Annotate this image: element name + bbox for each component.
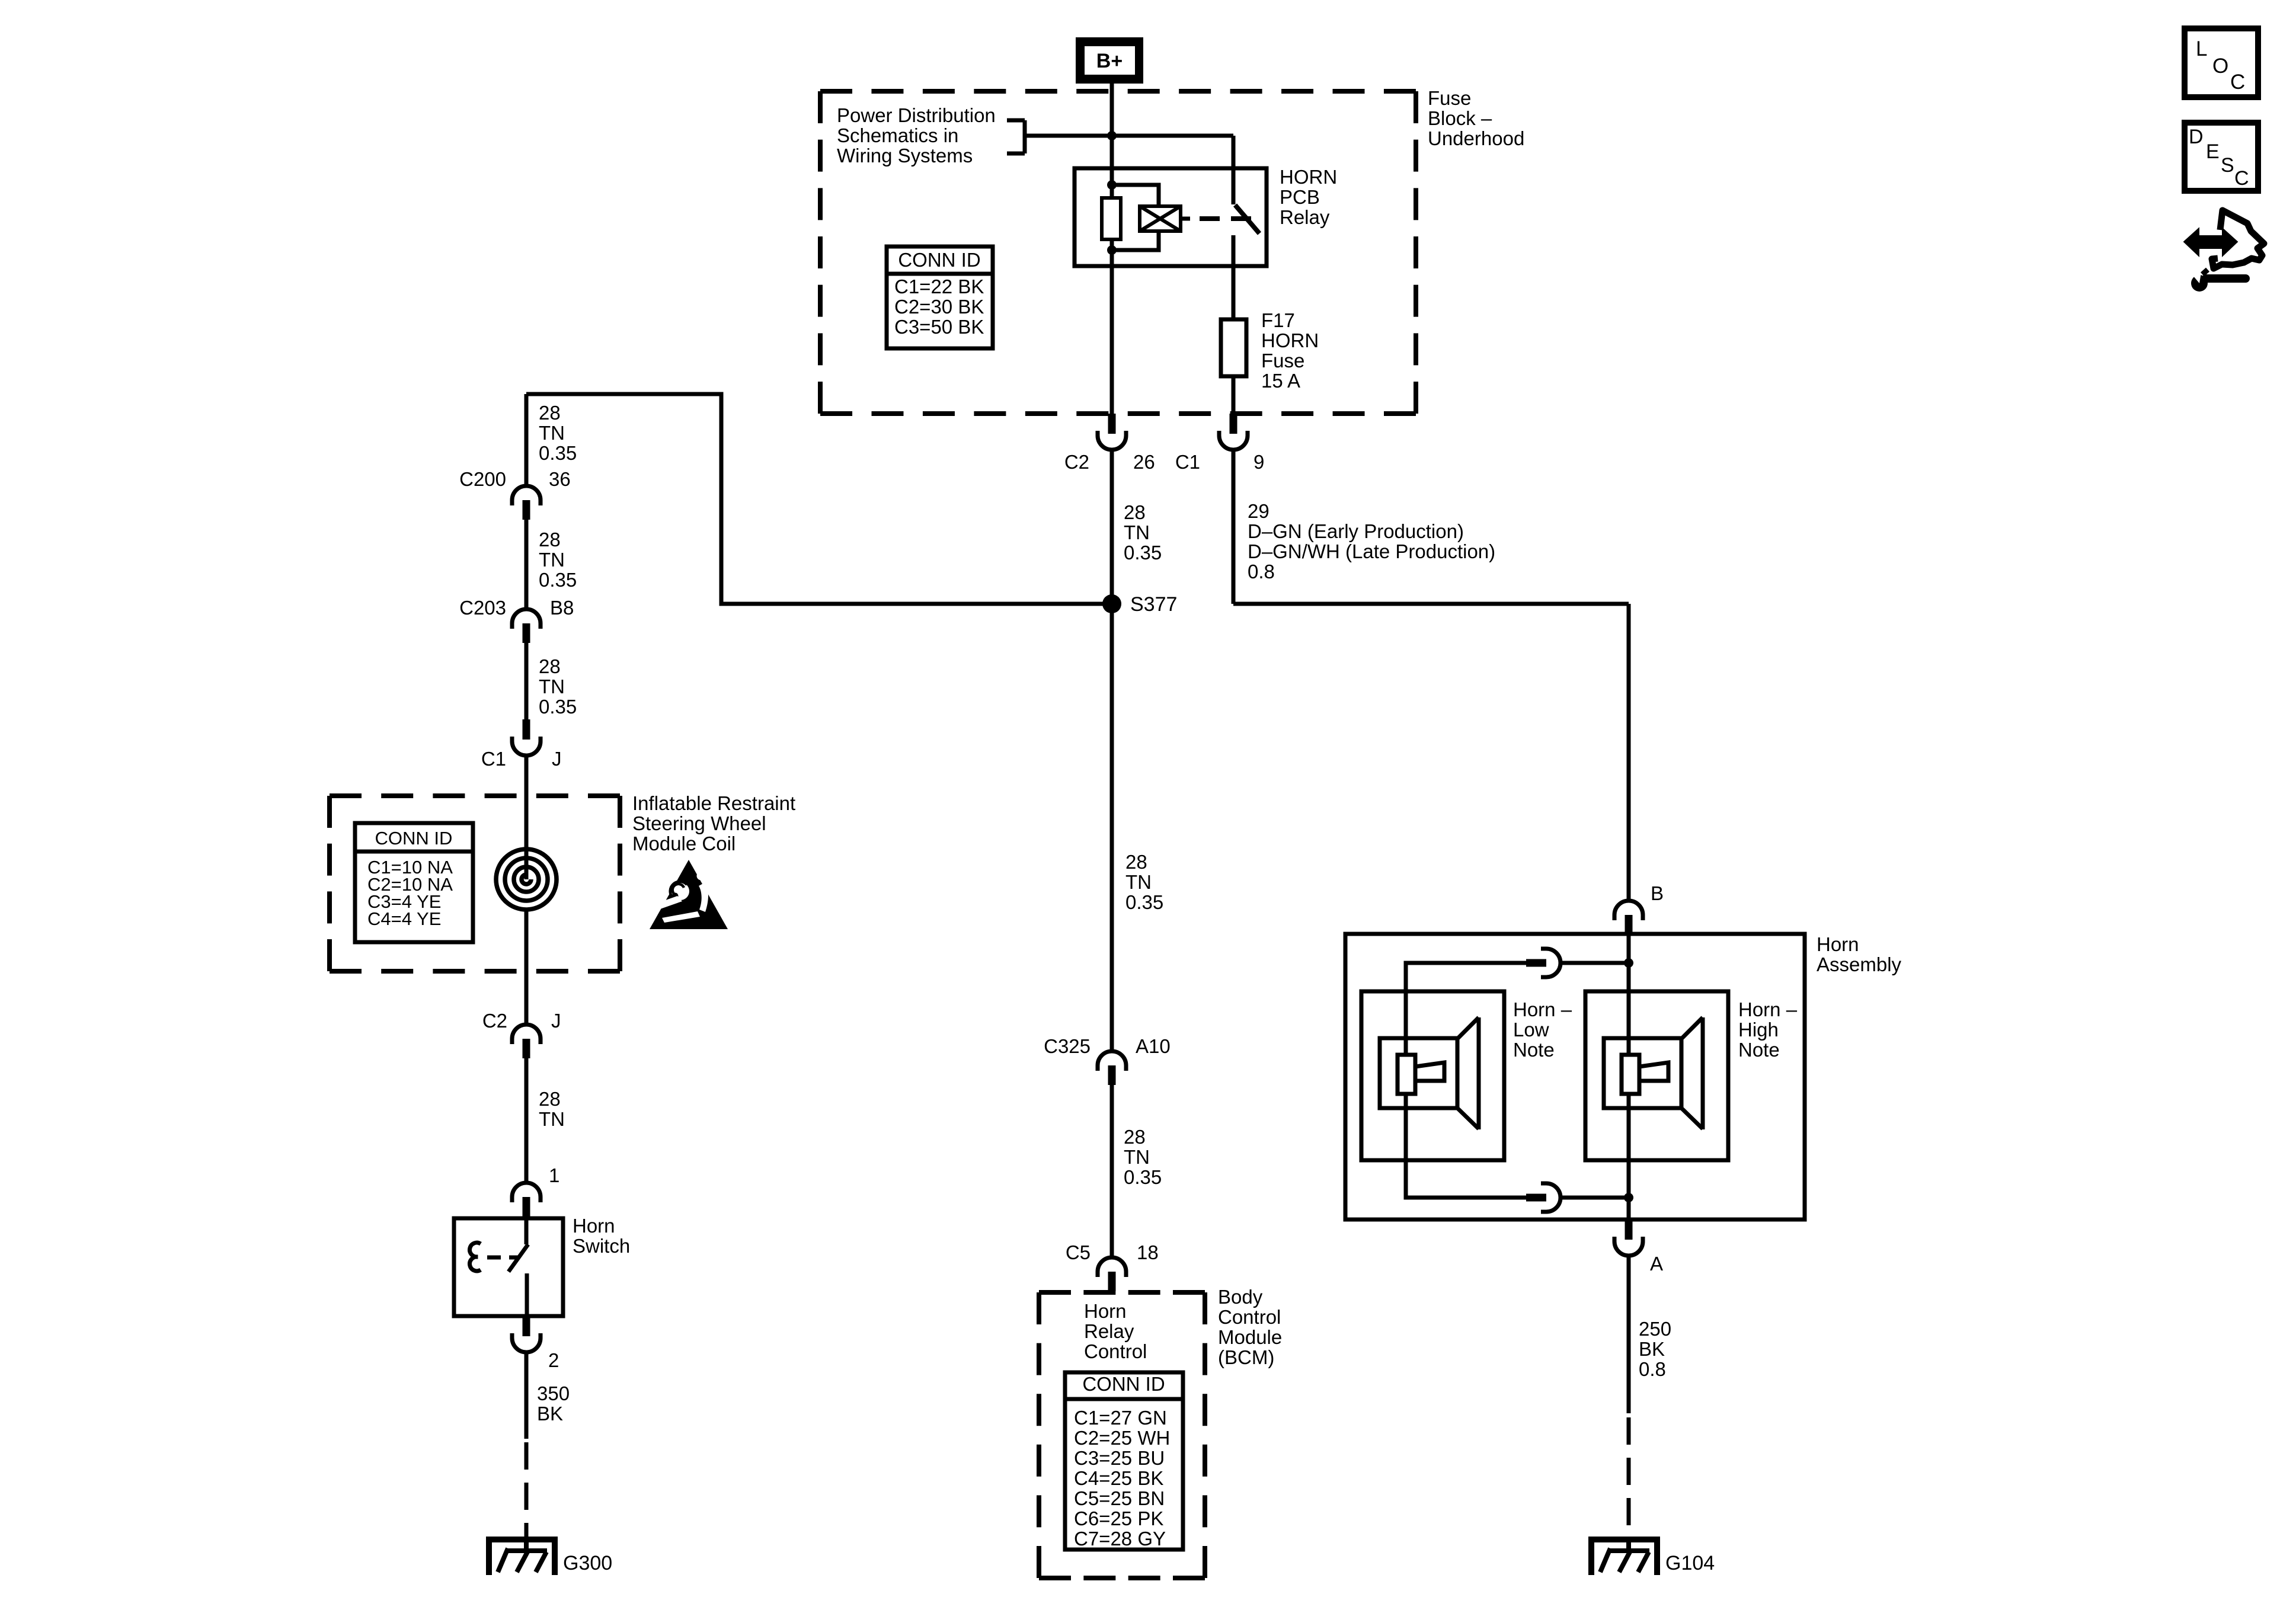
svg-text:Power Distribution: Power Distribution bbox=[837, 104, 996, 126]
svg-text:Note: Note bbox=[1738, 1039, 1780, 1061]
junction dot horn bottom bbox=[1624, 1193, 1633, 1202]
connector C325 pin A10 bbox=[1098, 1051, 1126, 1085]
svg-text:C4=4 YE: C4=4 YE bbox=[367, 908, 441, 929]
svg-text:Horn: Horn bbox=[1084, 1300, 1127, 1322]
svg-text:TN: TN bbox=[539, 422, 565, 444]
horn switch lower contact bbox=[525, 1273, 529, 1316]
svg-text:C325: C325 bbox=[1044, 1035, 1091, 1057]
wire horn switch to ground (solid) bbox=[525, 1352, 529, 1439]
svg-text:29: 29 bbox=[1248, 500, 1269, 522]
svg-text:Horn –: Horn – bbox=[1513, 998, 1572, 1020]
wire left column top bbox=[525, 394, 529, 487]
svg-text:B: B bbox=[1651, 882, 1664, 904]
svg-text:Wiring Systems: Wiring Systems bbox=[837, 145, 973, 167]
wire B+ to fuse block bbox=[1110, 84, 1114, 137]
splice S377 bbox=[1102, 594, 1121, 613]
svg-text:TN: TN bbox=[539, 676, 565, 697]
svg-text:28: 28 bbox=[539, 655, 561, 677]
svg-text:G300: G300 bbox=[563, 1552, 612, 1574]
fuse block - underhood dashed box bbox=[820, 91, 1416, 414]
svg-text:S377: S377 bbox=[1130, 593, 1177, 616]
svg-text:C1=27 GN: C1=27 GN bbox=[1074, 1407, 1167, 1429]
relay switch feed wire bbox=[1232, 136, 1236, 204]
wire C1-9 down bbox=[1232, 450, 1236, 604]
junction dot horn top bbox=[1624, 958, 1633, 968]
svg-text:HORN: HORN bbox=[1280, 166, 1337, 188]
svg-text:C2=30 BK: C2=30 BK bbox=[894, 296, 984, 318]
svg-text:C: C bbox=[2234, 167, 2249, 190]
svg-text:Horn –: Horn – bbox=[1738, 998, 1798, 1020]
svg-text:2: 2 bbox=[548, 1349, 559, 1371]
wire bottom connector to junction bbox=[1560, 1196, 1629, 1200]
relay switch lower contact bbox=[1232, 235, 1236, 266]
wire horn assembly to ground (solid) bbox=[1627, 1256, 1631, 1413]
svg-text:L: L bbox=[2196, 37, 2207, 60]
wire relay to fuse bbox=[1232, 266, 1236, 321]
svg-text:C1=22 BK: C1=22 BK bbox=[894, 276, 984, 297]
svg-text:Body: Body bbox=[1218, 1286, 1263, 1308]
horn switch actuator dashes bbox=[487, 1256, 518, 1260]
svg-text:C3=25 BU: C3=25 BU bbox=[1074, 1447, 1165, 1469]
wire C2-26 to S377 bbox=[1110, 450, 1114, 604]
svg-text:C6=25 PK: C6=25 PK bbox=[1074, 1507, 1163, 1529]
wire relay coil out to connector C2-26 bbox=[1110, 266, 1114, 415]
connector C2 pin J bbox=[512, 1025, 541, 1058]
wire C325 to C5 bbox=[1110, 1085, 1114, 1259]
svg-text:B+: B+ bbox=[1096, 50, 1123, 72]
horn switch actuator symbol bbox=[470, 1243, 481, 1271]
svg-text:28: 28 bbox=[1124, 1126, 1146, 1148]
svg-text:HORN: HORN bbox=[1261, 329, 1319, 351]
svg-text:0.35: 0.35 bbox=[1124, 1166, 1162, 1188]
svg-text:Assembly: Assembly bbox=[1817, 953, 1902, 975]
remove/install icon double arrow bbox=[2186, 231, 2236, 253]
svg-text:9: 9 bbox=[1253, 451, 1264, 473]
svg-text:1: 1 bbox=[549, 1164, 559, 1186]
svg-text:Horn: Horn bbox=[573, 1215, 615, 1237]
remove/install icon part outline bbox=[2212, 210, 2264, 268]
svg-text:28: 28 bbox=[1125, 851, 1147, 873]
wire C200 to C203 bbox=[525, 520, 529, 610]
svg-text:C203: C203 bbox=[459, 597, 506, 619]
relay coil tail bbox=[1181, 217, 1190, 221]
svg-text:B8: B8 bbox=[550, 597, 574, 619]
horn high note symbol bbox=[1585, 991, 1728, 1160]
svg-text:High: High bbox=[1738, 1019, 1779, 1041]
horn assembly box bbox=[1345, 934, 1805, 1219]
connector low horn top bbox=[1526, 949, 1560, 977]
svg-text:Block –: Block – bbox=[1428, 107, 1492, 129]
relay coil loop bbox=[1112, 185, 1159, 206]
wire horn switch to ground (dashed) bbox=[525, 1442, 529, 1539]
svg-text:TN: TN bbox=[1124, 1146, 1150, 1168]
HORN PCB relay box bbox=[1075, 168, 1267, 266]
svg-text:Control: Control bbox=[1218, 1306, 1281, 1328]
svg-text:C200: C200 bbox=[459, 468, 506, 490]
wire C1-J into coil bbox=[525, 756, 529, 879]
svg-text:Module: Module bbox=[1218, 1326, 1282, 1348]
svg-text:C3=50 BK: C3=50 BK bbox=[894, 316, 984, 338]
svg-text:Relay: Relay bbox=[1280, 206, 1330, 228]
svg-text:E: E bbox=[2206, 140, 2220, 163]
connector C203 pin B8 bbox=[512, 609, 541, 643]
wire B+ feed down into relay bbox=[1110, 136, 1114, 171]
relay junction dot bottom bbox=[1107, 245, 1117, 255]
svg-text:26: 26 bbox=[1133, 451, 1155, 473]
svg-text:250: 250 bbox=[1639, 1318, 1671, 1340]
svg-text:C1: C1 bbox=[481, 748, 506, 770]
relay switch blade bbox=[1235, 205, 1259, 233]
coil CONN ID box bbox=[355, 823, 473, 942]
horn assembly main wire bbox=[1627, 934, 1631, 1219]
svg-text:C: C bbox=[2230, 71, 2245, 94]
clockspring coil spiral bbox=[496, 849, 557, 910]
wire C203 to C1-J bbox=[525, 643, 529, 721]
connector C1 pin J bbox=[512, 719, 541, 756]
svg-text:Low: Low bbox=[1513, 1019, 1549, 1041]
relay actuating linkage dashes bbox=[1200, 216, 1252, 221]
svg-text:0.35: 0.35 bbox=[539, 569, 577, 591]
junction dot at B+ feed bbox=[1107, 131, 1117, 140]
svg-text:TN: TN bbox=[1124, 521, 1150, 543]
svg-text:C5=25 BN: C5=25 BN bbox=[1074, 1487, 1165, 1509]
relay resistor bbox=[1102, 198, 1121, 239]
svg-text:28: 28 bbox=[539, 1088, 561, 1110]
wire low horn loop bbox=[1406, 963, 1527, 1198]
wire fuse to connector C1-9 bbox=[1232, 376, 1236, 415]
relay coil-side wire bbox=[1110, 171, 1114, 266]
wire horn assembly to ground (dashed) bbox=[1627, 1417, 1631, 1539]
svg-text:CONN ID: CONN ID bbox=[898, 249, 980, 271]
fuse block CONN ID box bbox=[887, 247, 993, 348]
svg-text:C4=25 BK: C4=25 BK bbox=[1074, 1467, 1163, 1489]
battery feed B+ box bbox=[1076, 37, 1143, 84]
svg-text:Steering Wheel: Steering Wheel bbox=[632, 812, 766, 834]
wire right branch horizontal bbox=[1233, 602, 1629, 606]
svg-text:Switch: Switch bbox=[573, 1235, 630, 1257]
horn switch blade bbox=[509, 1244, 528, 1272]
svg-text:Horn: Horn bbox=[1817, 933, 1859, 955]
connector low horn bottom bbox=[1526, 1183, 1560, 1212]
svg-text:D: D bbox=[2189, 126, 2204, 148]
connector horn switch pin 2 bbox=[512, 1316, 541, 1352]
airbag warning triangle bbox=[650, 860, 728, 929]
wire right branch down to horn assembly bbox=[1627, 604, 1631, 902]
connector C1 pin 9 bbox=[1219, 414, 1248, 450]
LOC navigation box bbox=[2185, 28, 2258, 97]
svg-text:0.8: 0.8 bbox=[1639, 1358, 1666, 1380]
svg-text:J: J bbox=[552, 748, 562, 770]
svg-text:J: J bbox=[551, 1010, 561, 1032]
svg-text:28: 28 bbox=[539, 529, 561, 550]
svg-text:Fuse: Fuse bbox=[1428, 87, 1471, 109]
svg-text:TN: TN bbox=[539, 549, 565, 571]
svg-text:0.35: 0.35 bbox=[539, 696, 577, 718]
svg-text:F17: F17 bbox=[1261, 309, 1295, 331]
connector C200 pin 36 bbox=[512, 486, 541, 520]
svg-text:C1: C1 bbox=[1175, 451, 1200, 473]
svg-text:Schematics in: Schematics in bbox=[837, 124, 958, 146]
svg-text:Module Coil: Module Coil bbox=[632, 833, 736, 854]
svg-text:Inflatable Restraint: Inflatable Restraint bbox=[632, 792, 795, 814]
wire top connector to junction bbox=[1560, 961, 1629, 965]
wire C2-J to horn switch bbox=[525, 1058, 529, 1184]
svg-text:Note: Note bbox=[1513, 1039, 1555, 1061]
svg-text:0.8: 0.8 bbox=[1248, 561, 1275, 582]
svg-text:C2: C2 bbox=[482, 1010, 507, 1032]
body control module dashed box bbox=[1039, 1292, 1205, 1578]
svg-text:C2=25 WH: C2=25 WH bbox=[1074, 1427, 1170, 1449]
svg-text:S: S bbox=[2221, 154, 2234, 177]
svg-text:PCB: PCB bbox=[1280, 186, 1320, 208]
svg-text:O: O bbox=[2212, 55, 2228, 78]
svg-text:Underhood: Underhood bbox=[1428, 127, 1524, 149]
ground G104 bbox=[1591, 1539, 1657, 1575]
svg-text:0.35: 0.35 bbox=[1125, 891, 1163, 913]
connector C5 pin 18 bbox=[1098, 1257, 1126, 1291]
svg-text:D–GN/WH (Late Production): D–GN/WH (Late Production) bbox=[1248, 540, 1495, 562]
svg-text:28: 28 bbox=[539, 402, 561, 424]
svg-text:C5: C5 bbox=[1066, 1241, 1091, 1263]
svg-text:A10: A10 bbox=[1136, 1035, 1171, 1057]
svg-text:15 A: 15 A bbox=[1261, 370, 1300, 392]
remove/install icon wrench bbox=[2186, 265, 2246, 292]
horn switch upper contact bbox=[525, 1217, 529, 1244]
ground G300 bbox=[489, 1539, 555, 1575]
connector horn assembly pin A bbox=[1614, 1219, 1643, 1256]
svg-text:Control: Control bbox=[1084, 1340, 1147, 1362]
svg-text:D–GN (Early Production): D–GN (Early Production) bbox=[1248, 520, 1464, 542]
wire S377 west to left column bbox=[526, 394, 1112, 604]
svg-text:BK: BK bbox=[1639, 1338, 1665, 1360]
svg-text:350: 350 bbox=[537, 1382, 570, 1404]
svg-text:36: 36 bbox=[549, 468, 571, 490]
power distribution reference bracket bbox=[1007, 120, 1233, 153]
svg-text:TN: TN bbox=[1125, 871, 1152, 893]
connector C2 pin 26 bbox=[1098, 414, 1126, 450]
inflatable restraint coil dashed box bbox=[330, 796, 620, 971]
DESC navigation box bbox=[2185, 123, 2258, 191]
svg-text:CONN ID: CONN ID bbox=[1082, 1373, 1165, 1395]
svg-text:Relay: Relay bbox=[1084, 1320, 1134, 1342]
horn switch box bbox=[454, 1218, 563, 1316]
svg-text:Fuse: Fuse bbox=[1261, 350, 1304, 372]
svg-text:(BCM): (BCM) bbox=[1218, 1346, 1274, 1368]
fuse F17 bbox=[1221, 319, 1246, 376]
svg-text:28: 28 bbox=[1124, 501, 1146, 523]
horn low note symbol bbox=[1361, 991, 1504, 1160]
svg-text:0.35: 0.35 bbox=[1124, 542, 1162, 564]
connector horn assembly pin B bbox=[1614, 901, 1643, 934]
svg-text:TN: TN bbox=[539, 1108, 565, 1130]
wire coil to C2-J bbox=[525, 911, 529, 1026]
svg-text:G104: G104 bbox=[1665, 1552, 1715, 1574]
svg-text:0.35: 0.35 bbox=[539, 442, 577, 464]
svg-text:BK: BK bbox=[537, 1403, 563, 1425]
wire S377 to C325 bbox=[1110, 604, 1114, 1052]
relay coil box with X bbox=[1140, 206, 1181, 231]
svg-text:CONN ID: CONN ID bbox=[375, 828, 453, 849]
svg-text:18: 18 bbox=[1137, 1241, 1159, 1263]
svg-text:A: A bbox=[1650, 1253, 1663, 1275]
BCM CONN ID box bbox=[1065, 1372, 1183, 1550]
connector horn switch pin 1 bbox=[512, 1183, 541, 1217]
svg-text:C7=28 GY: C7=28 GY bbox=[1074, 1528, 1166, 1550]
svg-text:C2: C2 bbox=[1064, 451, 1089, 473]
relay junction dot top bbox=[1107, 180, 1117, 190]
